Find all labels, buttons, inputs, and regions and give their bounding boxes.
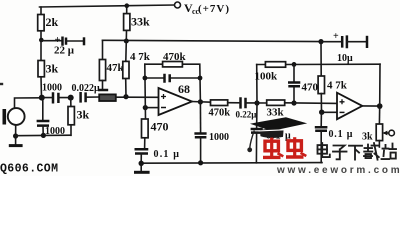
svg-text:0.1 μ: 0.1 μ: [154, 149, 181, 160]
wire feedback2 left vertical: [256, 65, 258, 104]
op-amp U2: [337, 93, 362, 120]
ground (main): [140, 163, 142, 171]
capacitor 10u: [321, 41, 342, 43]
node J: [254, 100, 259, 105]
node F (supply/33k/4.7k): [124, 39, 129, 44]
svg-text:3k: 3k: [77, 108, 90, 122]
watermark text 电: [318, 143, 330, 157]
svg-text:22 μ: 22 μ: [54, 45, 75, 57]
op-amp U1: [159, 88, 193, 115]
capacitor 0.22u: [241, 97, 246, 108]
resistor R 33k: [125, 6, 127, 41]
resistor R 33k (stage2): [267, 100, 285, 105]
svg-text:100k: 100k: [255, 71, 279, 83]
watermark text 载: [364, 143, 379, 160]
svg-text:470k: 470k: [209, 108, 231, 119]
capacitor 0.1u (stage2): [320, 112, 322, 127]
wire feedback left vertical: [144, 64, 147, 119]
wire feedback2 right vertical: [379, 64, 381, 106]
svg-text:47k: 47k: [107, 62, 125, 74]
node N (U2 minus): [319, 110, 324, 115]
potentiometer 3k: [378, 106, 380, 124]
resistor R 47k (stage2): [320, 42, 322, 76]
wire supply branch left: [103, 40, 322, 41]
svg-text:www.eeworm.com: www.eeworm.com: [276, 165, 400, 176]
wire mic ground rail: [16, 134, 71, 137]
svg-text:4 7k: 4 7k: [327, 80, 348, 92]
wire U2 minus input: [322, 111, 337, 113]
resistor R 470: [142, 119, 149, 138]
wire ground rail: [141, 162, 322, 165]
node O (U2 output): [377, 103, 383, 109]
svg-text:10μ: 10μ: [337, 53, 353, 64]
wiper arrow and output terminal: [385, 132, 389, 134]
resistor R 470k (feedback): [145, 64, 201, 102]
capacitor 1000 (series input): [53, 92, 58, 103]
svg-text:470: 470: [302, 82, 319, 94]
svg-text:33k: 33k: [267, 107, 285, 119]
watermark bug 2: [286, 137, 306, 157]
capacitor 1000 (shunt, vertical): [42, 98, 44, 120]
watermark text CJK row: [318, 143, 397, 160]
capacitor 0.1u (hidden, stage2 input bias): [256, 103, 258, 129]
svg-text:+: +: [333, 31, 339, 42]
node G (minus input): [143, 105, 148, 110]
capacitor 1000 (output shunt): [199, 102, 201, 133]
node B (mic/3k/1000 junction): [39, 95, 45, 101]
node mic ground junction: [13, 133, 18, 138]
svg-text:68: 68: [178, 82, 190, 96]
wire U1 output: [192, 101, 211, 104]
resistor R 100k: [257, 63, 380, 65]
top supply rail: [40, 5, 175, 7]
node M (supply tap): [318, 39, 323, 44]
microphone MIC: [15, 98, 42, 108]
watermark text 子: [333, 146, 347, 160]
watermark graduation cap: [247, 117, 307, 152]
capacitor 68 (feedback): [145, 77, 200, 79]
node D (cap junction): [68, 95, 74, 101]
svg-text:1000: 1000: [42, 83, 62, 94]
node I (U1 output): [198, 99, 203, 104]
svg-text:470k: 470k: [163, 51, 187, 63]
node E (4.7k junction): [123, 94, 128, 99]
resistor R 47k (bias): [99, 60, 105, 81]
resistor R 4.7k: [125, 41, 128, 97]
capacitor 0.1u (stage1): [135, 149, 149, 153]
watermark bug 1: [263, 138, 283, 158]
svg-text:470: 470: [151, 120, 169, 134]
resistor R 2k: [40, 7, 42, 40]
node H (gnd rail left): [139, 161, 144, 166]
svg-text:1000: 1000: [209, 132, 229, 143]
watermark text 下: [349, 146, 362, 160]
wire U1 minus input: [145, 107, 159, 109]
svg-text:Q606.COM: Q606.COM: [0, 163, 58, 176]
resistor R 470k (series stage2): [211, 100, 228, 106]
node C (1000 shunt / rail): [41, 133, 46, 138]
svg-text:2k: 2k: [46, 15, 59, 29]
resistor R 3k (shunt): [70, 98, 72, 136]
resistor R 3k (divider): [40, 40, 43, 98]
svg-text:0.1 μ: 0.1 μ: [329, 129, 354, 140]
resistor R (series, unlabeled): [99, 94, 116, 101]
svg-text:0.022μ: 0.022μ: [72, 83, 101, 94]
Vcc terminal: [175, 2, 181, 8]
svg-text:4 7k: 4 7k: [130, 51, 151, 63]
ground (mic): [15, 136, 17, 144]
svg-text:3k: 3k: [46, 62, 59, 76]
svg-text:1000: 1000: [45, 126, 65, 137]
capacitor 0.022u: [81, 92, 86, 103]
svg-text:33k: 33k: [131, 15, 150, 29]
svg-text:0.22μ: 0.22μ: [236, 110, 257, 120]
node A (2k/3k junction): [39, 38, 44, 43]
node L: [291, 100, 296, 105]
svg-text:3k: 3k: [362, 132, 373, 143]
capacitor 22u: [41, 40, 62, 42]
wire U2 output: [362, 105, 379, 107]
node K (470 cap top): [292, 62, 297, 67]
svg-text:(+7V): (+7V): [198, 3, 230, 15]
scan speck: [0, 83, 3, 85]
watermark text 站: [382, 144, 397, 160]
capacitor 470 (feedback2): [293, 64, 295, 103]
